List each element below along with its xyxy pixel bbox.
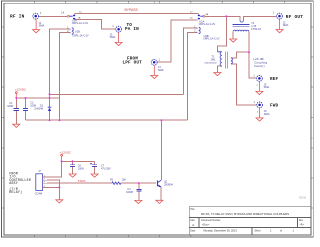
junction bottom +12V at C6 <box>72 160 74 162</box>
capacitor C2 <box>23 108 28 110</box>
connector J2 RF OUT <box>277 13 283 19</box>
svg-text:0443425002: 0443425002 <box>205 63 218 65</box>
junction drive line at coil1 pin2 <box>59 119 61 121</box>
junction drive line at Q1 collector tee <box>160 119 162 121</box>
svg-text:Factor): Factor) <box>254 64 265 68</box>
relay coil U1B <box>70 28 74 34</box>
wire +12VDC feed to right relay coil <box>50 93 184 95</box>
junction +12V rail at C2 <box>25 97 27 99</box>
svg-text:100N: 100N <box>7 105 13 108</box>
svg-text:Size: Size <box>190 220 195 222</box>
ground at T2 secondary <box>230 39 237 42</box>
wire T1 secondary bottom to FWD connector <box>231 64 257 105</box>
wire J7 pin2 down to pin4 node <box>47 180 60 187</box>
svg-text:100N: 100N <box>78 167 84 170</box>
wire BYPASS net U1A NC to U2A NC <box>75 13 199 15</box>
junction bottom +12V at stem <box>61 160 63 162</box>
svg-text:Date:: Date: <box>190 230 196 233</box>
wire C7 bottom lead to ground <box>94 167 96 174</box>
svg-text:FT50-43: FT50-43 <box>251 28 261 31</box>
wire +12VDC bottom rail <box>62 160 95 162</box>
svg-text:ASSY: ASSY <box>9 181 18 185</box>
connector J3 TO PA IN <box>116 26 122 32</box>
wire C1 top lead <box>15 98 17 108</box>
connector J1 RF IN <box>33 13 39 19</box>
svg-text:CRPL-1A-C-2V: CRPL-1A-C-2V <box>72 34 89 37</box>
svg-text:Monday, December 30, 2013: Monday, December 30, 2013 <box>204 229 238 233</box>
ground at RF OUT <box>276 19 283 33</box>
svg-text:CRPL-1A-C-2V: CRPL-1A-C-2V <box>72 22 89 25</box>
wire C4 bottom lead to ground <box>138 191 140 200</box>
ground at REF <box>256 82 263 95</box>
svg-text:U1B: U1B <box>75 29 80 33</box>
wire C2 bottom lead to drive line <box>25 111 27 121</box>
wire J7 pin3 TXRX to R1 <box>47 182 112 184</box>
connector J7 CON4 <box>36 174 47 191</box>
svg-text:JW1: JW1 <box>211 59 217 62</box>
wire U1A NO to TO PA IN connector <box>75 19 116 29</box>
wire Q1 emitter to ground <box>160 187 162 200</box>
svg-text:+12VDC: +12VDC <box>60 150 72 154</box>
svg-text:1000P: 1000P <box>126 191 134 194</box>
ground at C1 <box>13 124 20 127</box>
ground at T1 primary <box>214 73 221 76</box>
wire RF IN to relay U1A common <box>39 15 68 17</box>
capacitor C1 <box>14 108 19 110</box>
svg-text:1N4148: 1N4148 <box>34 108 43 111</box>
ground at FROM LPF OUT <box>151 65 158 78</box>
svg-text:SMA: SMA <box>39 24 45 28</box>
wire T2 secondary right down to REF connector <box>249 31 256 78</box>
wire C1 bottom lead to ground <box>15 111 17 125</box>
wire C6 top lead <box>72 161 74 164</box>
svg-text:SMA: SMA <box>283 23 289 27</box>
title block <box>189 207 311 235</box>
wire T2 secondary left to ground <box>232 31 234 39</box>
ground at C6 <box>69 174 76 177</box>
ground at Q1 emitter <box>156 200 163 203</box>
svg-text:RF OUT: RF OUT <box>286 14 304 20</box>
junction +12V rail at power stem <box>15 97 17 99</box>
svg-text:10K: 10K <box>122 178 127 181</box>
wire C2 top lead <box>25 98 27 108</box>
svg-text:FWD: FWD <box>270 104 279 109</box>
wire U1B coil pin1 down <box>50 29 70 107</box>
ground at J7 pins 2/4 <box>56 200 63 203</box>
wire T1 secondary top to REF vertical <box>231 52 249 58</box>
wire U2A common to T2 primary <box>205 16 240 20</box>
wire T1 primary bottom to ground <box>218 66 222 72</box>
svg-text:+12VDC: +12VDC <box>15 88 27 92</box>
svg-text:Sheet: Sheet <box>255 230 261 233</box>
svg-text:A: A <box>192 223 194 227</box>
wire U1B coil pin2 down to drive line <box>60 33 70 121</box>
connector J6 FWD <box>257 102 263 108</box>
wire drive line tee down to Q1 collector <box>160 120 162 180</box>
diode D1 <box>48 107 51 111</box>
svg-text:<Doc>: <Doc> <box>202 223 210 227</box>
svg-text:2N3904: 2N3904 <box>164 184 173 187</box>
svg-text:K5JVA: K5JVA <box>299 196 307 199</box>
capacitor C7 polarized <box>90 163 97 167</box>
svg-text:PA IN: PA IN <box>125 27 139 32</box>
wire C6 bottom lead to ground <box>72 167 74 174</box>
svg-text:CRPL-1A-C-2V: CRPL-1A-C-2V <box>203 38 220 41</box>
capacitor C4 <box>136 189 141 191</box>
wire T2 primary right side to RF OUT <box>243 16 276 20</box>
wire relay drive line <box>26 119 188 121</box>
junction RF trunk / T1 tap <box>225 15 227 17</box>
junction base node at C4 <box>138 182 140 184</box>
svg-text:CRPL-1A-C-2V: CRPL-1A-C-2V <box>199 23 216 26</box>
wire C7 top lead <box>94 161 96 164</box>
wire J7 pin1 to +12VDC <box>47 161 62 177</box>
svg-text:REF: REF <box>270 77 279 82</box>
wire C4 top lead <box>138 183 140 189</box>
power symbol +12VDC bottom <box>61 154 63 161</box>
ground at TO PA IN <box>115 32 122 45</box>
svg-text:1C: 1C <box>79 12 82 14</box>
svg-text:SMA: SMA <box>264 85 270 89</box>
wire R1 to junction to Q1 base <box>121 182 156 184</box>
svg-text:SMA: SMA <box>158 68 164 72</box>
connector J5 REF <box>257 76 263 82</box>
svg-text:1A: 1A <box>61 11 64 14</box>
wire +12VDC rail at caps <box>16 97 60 99</box>
svg-text:Title: Title <box>190 208 195 211</box>
svg-text:CON4: CON4 <box>35 192 43 196</box>
ground at C4 <box>135 200 142 203</box>
power symbol +12VDC top <box>15 92 17 98</box>
ground at FWD <box>256 108 263 121</box>
svg-text:RF IN: RF IN <box>10 14 25 20</box>
transformer T2 <box>232 20 249 31</box>
svg-text:47U 35V: 47U 35V <box>101 167 111 170</box>
svg-text:RELAY): RELAY) <box>9 190 22 194</box>
wire U2B coil pin2 to drive line <box>188 32 197 120</box>
connector J4 FROM LPF OUT <box>151 59 157 65</box>
relay coil U2B <box>196 27 200 33</box>
wire RF trunk tap down to T1 primary <box>217 16 226 52</box>
svg-text:BYPASS: BYPASS <box>125 8 139 12</box>
wire D1 bottom lead <box>49 111 51 120</box>
svg-text:<R>: <R> <box>300 224 305 227</box>
capacitor C6 <box>70 165 75 167</box>
ground at RF IN <box>33 19 40 33</box>
svg-text:Document Number: Document Number <box>201 219 221 222</box>
junction J7 pin2/pin4 ground node <box>58 186 60 188</box>
wire J7 pin4 to ground node <box>47 187 60 199</box>
transformer T1 <box>217 51 232 68</box>
ground at C7 <box>91 174 98 177</box>
wire U2B coil pin1 to +12VDC line <box>183 28 196 94</box>
junction drive line at D1 <box>49 119 51 121</box>
relay contact U1A <box>68 14 76 20</box>
junction REF line / T1 secondary <box>248 51 250 53</box>
svg-text:LPF OUT: LPF OUT <box>123 61 143 66</box>
relay contact U2A <box>198 14 205 20</box>
junction +12V rail at coil1 vertical <box>49 97 51 99</box>
svg-text:RF PA, TX RELAY ASSY, BYPASS A: RF PA, TX RELAY ASSY, BYPASS AND DIRECTI… <box>201 212 289 216</box>
svg-text:SMA: SMA <box>264 112 270 116</box>
junction +12V feed at coil1 vertical <box>49 93 51 95</box>
transistor Q1 2N3904 <box>158 180 162 187</box>
svg-text:SMA: SMA <box>110 35 116 39</box>
resistor R1 <box>112 182 121 185</box>
wire FROM LPF OUT to relay U2A NO <box>157 20 197 62</box>
svg-text:TXRX: TXRX <box>78 179 86 183</box>
